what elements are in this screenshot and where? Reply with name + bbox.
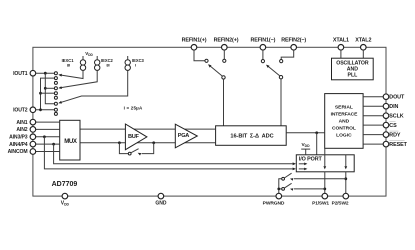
svg-text:PWRGND: PWRGND bbox=[263, 201, 285, 207]
wire IOUT1 line bbox=[36, 72, 55, 74]
junction buffer bypass left bbox=[118, 141, 121, 144]
wire AINP analog line bbox=[80, 128, 216, 130]
wire AINCOM to MUX bbox=[36, 151, 60, 153]
svg-text:XTAL1: XTAL1 bbox=[333, 38, 349, 44]
wire IOUT2 line bbox=[36, 109, 55, 111]
svg-text:RDY: RDY bbox=[389, 133, 401, 139]
junction bus A middle bbox=[44, 87, 47, 90]
svg-text:AIN1: AIN1 bbox=[16, 120, 27, 126]
svg-text:CS: CS bbox=[389, 123, 397, 129]
wire serial block to DOUT bbox=[363, 96, 383, 98]
junction AIN4/P4 branch bbox=[52, 143, 55, 146]
wire AIN4/P4 to I/O port bbox=[54, 144, 296, 165]
pin REFIN2(+) bbox=[214, 38, 239, 50]
svg-text:CONTROL: CONTROL bbox=[332, 125, 356, 131]
svg-text:LOGIC: LOGIC bbox=[336, 132, 352, 138]
block oscillator and PLL bbox=[332, 58, 374, 80]
pin AINCOM bbox=[8, 149, 36, 156]
wire ADC to serial interface bbox=[286, 132, 325, 134]
switch contact 7 bbox=[54, 102, 57, 105]
wire branch to I/O port bbox=[316, 133, 318, 155]
pin AIN2 bbox=[16, 127, 35, 134]
svg-text:BUF: BUF bbox=[128, 134, 139, 140]
wire P2 switch line bbox=[290, 178, 346, 181]
svg-text:I = 25µA: I = 25µA bbox=[124, 105, 143, 110]
pin GND bbox=[155, 193, 167, 206]
svg-text:P1/SW1: P1/SW1 bbox=[312, 201, 329, 207]
switch SW-REF2 arm bbox=[266, 65, 280, 76]
svg-text:AND: AND bbox=[339, 119, 350, 125]
block 16-bit sigma-delta ADC bbox=[216, 126, 287, 146]
wire serial block to RESET bbox=[363, 143, 383, 145]
wire REFIN1(+) to switch contact bbox=[194, 50, 205, 61]
wire serial block to I/O port P1 path bbox=[324, 148, 326, 155]
pin VDD bbox=[61, 193, 70, 206]
chip outline AD7709 bbox=[33, 47, 386, 196]
pin AIN4/P4 bbox=[9, 141, 36, 148]
junction buffer bypass right bbox=[152, 141, 155, 144]
wire bus A branch to contact 4 bbox=[45, 87, 54, 89]
switch contact 5 bbox=[54, 92, 57, 95]
wire serial block to SCLK bbox=[363, 115, 383, 117]
wire P1 switch line bbox=[290, 188, 325, 191]
svg-text:REFIN2(+): REFIN2(+) bbox=[214, 38, 239, 44]
svg-text:REFIN1(+): REFIN1(+) bbox=[182, 38, 207, 44]
wire bus B bbox=[41, 78, 55, 110]
switch SW-REF2 pole bbox=[279, 76, 282, 79]
pin DIN bbox=[383, 103, 398, 110]
svg-text:AIN3/P3: AIN3/P3 bbox=[9, 135, 28, 141]
switch SW-REF1 contact B bbox=[223, 59, 226, 62]
wire I/O port to P2/SW2 pin bbox=[345, 172, 347, 194]
pin SCLK bbox=[383, 113, 404, 120]
svg-text:I: I bbox=[135, 63, 136, 68]
switch SW-REF2 contact A bbox=[261, 60, 264, 63]
arrow P1 down inside I/O port bbox=[323, 155, 326, 170]
svg-text:MUX: MUX bbox=[64, 138, 78, 145]
wire AIN4/P4 to MUX bbox=[36, 143, 60, 145]
wire REFIN2(-) to switch contact bbox=[281, 50, 294, 60]
switch contact 4 bbox=[54, 87, 57, 90]
switch SW2 contact bbox=[282, 188, 285, 191]
switch SW1 arm bbox=[284, 173, 291, 178]
pin XTAL1 bbox=[333, 38, 349, 50]
pin PWRGND bbox=[263, 193, 285, 206]
wire serial block to RDY bbox=[363, 134, 383, 136]
svg-text:AIN2: AIN2 bbox=[16, 127, 27, 133]
wire serial block to CS bbox=[363, 124, 383, 126]
wire REF2 pole to ADC bbox=[280, 79, 282, 126]
switch arm IEXC3 to contact 7 bbox=[58, 70, 127, 103]
svg-text:PGA: PGA bbox=[178, 133, 189, 139]
pin IOUT1 bbox=[13, 70, 36, 77]
svg-text:XTAL2: XTAL2 bbox=[355, 38, 371, 44]
current source IEXC1 8I bbox=[62, 56, 86, 70]
wire REF1 pole to ADC bbox=[223, 79, 225, 126]
switch contact 8 bbox=[54, 108, 57, 111]
junction P1 switch branch bbox=[323, 188, 326, 191]
pin XTAL2 bbox=[355, 38, 371, 50]
switch contact 9 bbox=[54, 112, 57, 115]
pin REFIN1(-) bbox=[250, 38, 275, 50]
junction bus B middle bbox=[39, 92, 42, 95]
junction ADC-serial branch bbox=[315, 131, 318, 134]
junction PWRGND switch2 bbox=[277, 188, 280, 191]
switch SW-REF1 pole bbox=[222, 76, 225, 79]
pin AIN1 bbox=[16, 119, 35, 126]
switch bypass arm bbox=[131, 149, 139, 153]
svg-text:P2/SW2: P2/SW2 bbox=[332, 201, 349, 207]
buffer BUF bbox=[125, 124, 146, 150]
svg-text:REFIN2(−): REFIN2(−) bbox=[281, 38, 306, 44]
wire XTAL2 to oscillator bbox=[362, 50, 364, 58]
current source IEXC3 I bbox=[125, 56, 145, 70]
pin IOUT2 bbox=[13, 107, 36, 114]
svg-text:OSCILLATOR: OSCILLATOR bbox=[336, 60, 369, 66]
supply VDD at I/O port bbox=[301, 142, 310, 155]
svg-text:DIN: DIN bbox=[389, 104, 398, 110]
pin DOUT bbox=[383, 94, 405, 101]
block MUX bbox=[60, 120, 80, 160]
junction bus B on IOUT2 line bbox=[39, 108, 42, 111]
svg-text:AINCOM: AINCOM bbox=[8, 149, 28, 155]
svg-text:I/O PORT: I/O PORT bbox=[299, 156, 323, 162]
svg-text:AND: AND bbox=[347, 67, 358, 73]
switch arm IEXC1 to contact 1 bbox=[58, 70, 83, 78]
svg-text:DOUT: DOUT bbox=[389, 95, 405, 101]
wire bypass right leg with arrowhead bbox=[138, 143, 154, 156]
svg-text:PLL: PLL bbox=[347, 73, 358, 79]
switch SW2 arm bbox=[284, 183, 291, 188]
switch bypass contact bbox=[128, 152, 131, 155]
wire bus A bbox=[45, 73, 54, 104]
wire XTAL1 to oscillator bbox=[340, 50, 342, 58]
svg-text:8I: 8I bbox=[106, 63, 109, 68]
svg-text:GND: GND bbox=[155, 201, 167, 207]
arrow P2 down inside I/O port bbox=[344, 155, 347, 170]
pin P2/SW2 bbox=[332, 193, 349, 206]
svg-text:SERIAL: SERIAL bbox=[335, 105, 353, 111]
svg-text:8I: 8I bbox=[67, 63, 70, 68]
block serial interface and control logic bbox=[325, 94, 363, 149]
wire I/O port to P1/SW1 pin bbox=[324, 172, 326, 194]
switch contact 2 bbox=[54, 77, 57, 80]
wire serial block to DIN bbox=[363, 105, 383, 107]
svg-text:IOUT1: IOUT1 bbox=[13, 71, 28, 77]
wire bypass left leg bbox=[119, 143, 128, 154]
wire REFIN1(-) to switch contact bbox=[262, 50, 264, 60]
svg-text:AIN4/P4: AIN4/P4 bbox=[9, 142, 28, 148]
wire AINM analog line bbox=[80, 142, 216, 144]
svg-text:SCLK: SCLK bbox=[389, 114, 403, 120]
arrow P4 input inside I/O port bbox=[299, 168, 308, 171]
current source IEXC2 8I bbox=[95, 56, 114, 70]
switch contact 6 bbox=[54, 96, 57, 99]
switch arm IEXC2 to contact 4 bbox=[58, 70, 97, 89]
wire bus B branch to contact 5 bbox=[41, 92, 55, 94]
block I/O port bbox=[296, 155, 354, 172]
pin REFIN2(-) bbox=[281, 38, 306, 50]
wire AIN2 to MUX bbox=[36, 128, 60, 130]
junction bus A top bbox=[44, 72, 47, 75]
pin P1/SW1 bbox=[312, 193, 329, 206]
junction AIN3/P3 branch bbox=[43, 135, 46, 138]
wire REFIN2(+) to switch contact bbox=[223, 50, 225, 59]
pin RESET bbox=[383, 141, 407, 149]
pin REFIN1(+) bbox=[182, 38, 207, 50]
switch contact 3 bbox=[54, 81, 57, 84]
switch SW-REF2 contact B bbox=[280, 60, 283, 63]
svg-text:REFIN1(−): REFIN1(−) bbox=[250, 38, 275, 44]
wire AIN3/P3 to I/O port bbox=[44, 137, 296, 171]
arrow P3 input inside I/O port bbox=[299, 163, 308, 166]
switch SW1 contact bbox=[282, 177, 285, 180]
wire AIN3/P3 to MUX bbox=[36, 136, 60, 138]
switch SW-REF1 contact A bbox=[205, 59, 208, 62]
pin RDY bbox=[383, 131, 401, 139]
switch SW-REF1 arm bbox=[208, 64, 222, 76]
svg-text:INTERFACE: INTERFACE bbox=[331, 112, 358, 118]
pin AIN3/P3 bbox=[9, 134, 36, 141]
svg-text:IOUT2: IOUT2 bbox=[13, 108, 28, 114]
pin CS bbox=[383, 122, 397, 130]
svg-text:16-BIT Σ-Δ ADC: 16-BIT Σ-Δ ADC bbox=[230, 134, 273, 140]
svg-text:RESET: RESET bbox=[389, 142, 407, 148]
svg-text:AD7709: AD7709 bbox=[52, 181, 78, 188]
junction P2 switch branch bbox=[344, 177, 347, 180]
wire AIN1 to MUX bbox=[36, 121, 60, 123]
wire PWRGND to switches bbox=[279, 179, 282, 194]
amplifier PGA bbox=[175, 124, 197, 148]
switch contact 1 bbox=[54, 72, 57, 75]
